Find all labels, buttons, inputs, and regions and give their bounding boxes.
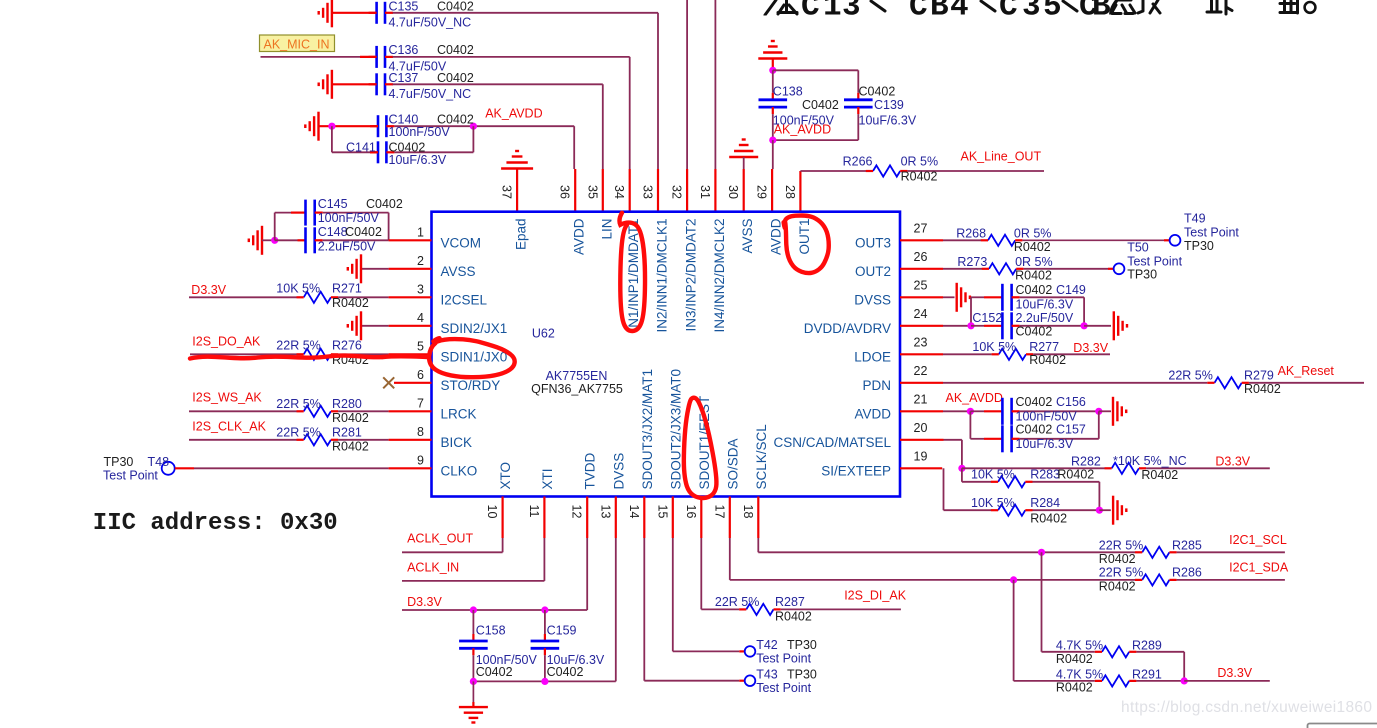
svg-text:TVDD: TVDD bbox=[583, 453, 598, 490]
svg-text:100nF/50V: 100nF/50V bbox=[1016, 410, 1078, 424]
svg-text:37: 37 bbox=[500, 185, 514, 199]
svg-text:Test Point: Test Point bbox=[756, 652, 811, 666]
svg-text:22R 5%: 22R 5% bbox=[276, 397, 320, 411]
svg-text:C135: C135 bbox=[389, 0, 419, 14]
svg-text:C152: C152 bbox=[972, 311, 1002, 325]
svg-text:CSN/CAD/MATSEL: CSN/CAD/MATSEL bbox=[773, 435, 891, 450]
svg-text:R0402: R0402 bbox=[1099, 579, 1136, 593]
svg-text:AK_AVDD: AK_AVDD bbox=[946, 391, 1003, 405]
svg-text:DVSS: DVSS bbox=[611, 453, 626, 490]
svg-text:C0402: C0402 bbox=[1016, 395, 1053, 409]
svg-text:https://blog.csdn.net/xuweiwei: https://blog.csdn.net/xuweiwei1860 bbox=[1121, 699, 1372, 716]
svg-text:2: 2 bbox=[417, 254, 424, 268]
svg-text:22R 5%: 22R 5% bbox=[1099, 538, 1143, 552]
svg-text:DVSS: DVSS bbox=[854, 292, 891, 307]
svg-text:STO/RDY: STO/RDY bbox=[441, 378, 501, 393]
svg-text:R271: R271 bbox=[332, 282, 362, 296]
svg-text:AVDD: AVDD bbox=[854, 406, 891, 421]
svg-text:R0402: R0402 bbox=[775, 610, 812, 624]
svg-text:XTI: XTI bbox=[540, 468, 555, 489]
svg-text:I2S_CLK_AK: I2S_CLK_AK bbox=[192, 420, 266, 434]
svg-text:R0402: R0402 bbox=[1141, 468, 1178, 482]
svg-text:C158: C158 bbox=[476, 624, 506, 638]
svg-text:XTO: XTO bbox=[498, 462, 513, 490]
svg-text:C0402: C0402 bbox=[1016, 324, 1053, 338]
svg-text:5: 5 bbox=[417, 340, 424, 354]
svg-text:R0402: R0402 bbox=[901, 170, 938, 184]
svg-text:AK7755EN: AK7755EN bbox=[546, 369, 608, 383]
svg-text:R287: R287 bbox=[775, 595, 805, 609]
svg-text:19: 19 bbox=[914, 449, 928, 463]
svg-text:C0402: C0402 bbox=[345, 225, 382, 239]
svg-text:AVSS: AVSS bbox=[740, 219, 755, 254]
svg-text:100nF/50V: 100nF/50V bbox=[389, 125, 451, 139]
svg-text:C149: C149 bbox=[1056, 283, 1086, 297]
svg-text:Test Point: Test Point bbox=[1127, 254, 1182, 268]
svg-text:10K 5%: 10K 5% bbox=[276, 282, 320, 296]
svg-text:12: 12 bbox=[570, 505, 584, 519]
svg-text:10K 5%: 10K 5% bbox=[972, 340, 1016, 354]
svg-text:C0402: C0402 bbox=[366, 197, 403, 211]
svg-text:R0402: R0402 bbox=[1244, 382, 1281, 396]
svg-text:24: 24 bbox=[914, 307, 928, 321]
svg-text:TP30: TP30 bbox=[1127, 268, 1157, 282]
svg-text:4.7uF/50V_NC: 4.7uF/50V_NC bbox=[389, 87, 472, 101]
svg-text:D3.3V: D3.3V bbox=[1073, 341, 1108, 355]
svg-text:SI/EXTEEP: SI/EXTEEP bbox=[821, 463, 891, 478]
svg-text:IIC address: 0x30: IIC address: 0x30 bbox=[93, 510, 338, 537]
svg-text:31: 31 bbox=[698, 185, 712, 199]
svg-text:IN3/INP2/DMDAT2: IN3/INP2/DMDAT2 bbox=[684, 219, 699, 332]
svg-text:22R 5%: 22R 5% bbox=[276, 425, 320, 439]
svg-text:R284: R284 bbox=[1030, 496, 1060, 510]
svg-text:R0402: R0402 bbox=[1099, 552, 1136, 566]
svg-text:2.2uF/50V: 2.2uF/50V bbox=[1016, 311, 1074, 325]
svg-text:26: 26 bbox=[914, 250, 928, 264]
svg-text:PDN: PDN bbox=[862, 378, 891, 393]
svg-text:Test Point: Test Point bbox=[1184, 226, 1239, 240]
svg-text:TP30: TP30 bbox=[787, 668, 817, 682]
svg-text:16: 16 bbox=[684, 505, 698, 519]
svg-text:18: 18 bbox=[741, 505, 755, 519]
svg-text:C139: C139 bbox=[874, 98, 904, 112]
svg-text:I2S_DO_AK: I2S_DO_AK bbox=[192, 335, 261, 349]
svg-text:SO/SDA: SO/SDA bbox=[725, 438, 740, 489]
svg-text:T48: T48 bbox=[148, 455, 170, 469]
svg-text:C0402: C0402 bbox=[1016, 423, 1053, 437]
svg-text:32: 32 bbox=[670, 185, 684, 199]
svg-text:D3.3V: D3.3V bbox=[1217, 666, 1252, 680]
svg-text:20: 20 bbox=[914, 421, 928, 435]
svg-text:I2C1_SCL: I2C1_SCL bbox=[1229, 533, 1287, 547]
svg-text:TP30: TP30 bbox=[104, 455, 134, 469]
svg-text:SDIN1/JX0: SDIN1/JX0 bbox=[441, 349, 508, 364]
svg-text:10uF/6.3V: 10uF/6.3V bbox=[1016, 298, 1074, 312]
svg-text:21: 21 bbox=[914, 392, 928, 406]
svg-text:D3.3V: D3.3V bbox=[1215, 455, 1250, 469]
svg-text:22R 5%: 22R 5% bbox=[276, 339, 320, 353]
svg-text:R285: R285 bbox=[1172, 538, 1202, 552]
svg-text:C136: C136 bbox=[389, 43, 419, 57]
svg-text:30: 30 bbox=[726, 185, 740, 199]
svg-text:T43: T43 bbox=[756, 668, 778, 682]
svg-text:C0402: C0402 bbox=[437, 71, 474, 85]
svg-text:4.7K 5%: 4.7K 5% bbox=[1056, 667, 1103, 681]
svg-text:C0402: C0402 bbox=[547, 665, 584, 679]
svg-text:3: 3 bbox=[417, 283, 424, 297]
svg-text:17: 17 bbox=[712, 505, 726, 519]
svg-text:ACLK_IN: ACLK_IN bbox=[407, 560, 459, 574]
svg-text:R0402: R0402 bbox=[1056, 681, 1093, 695]
svg-text:LRCK: LRCK bbox=[441, 406, 477, 421]
svg-text:QFN36_AK7755: QFN36_AK7755 bbox=[531, 382, 623, 396]
svg-text:AK_AVDD: AK_AVDD bbox=[485, 107, 542, 121]
svg-text:4: 4 bbox=[417, 311, 424, 325]
svg-text:I2S_WS_AK: I2S_WS_AK bbox=[192, 391, 262, 405]
svg-text:ACLK_OUT: ACLK_OUT bbox=[407, 532, 473, 546]
svg-text:R0402: R0402 bbox=[1030, 512, 1067, 526]
svg-text:C0402: C0402 bbox=[437, 43, 474, 57]
svg-text:14: 14 bbox=[627, 505, 641, 519]
svg-text:I2CSEL: I2CSEL bbox=[441, 292, 488, 307]
svg-text:0R 5%: 0R 5% bbox=[1014, 227, 1052, 241]
svg-text:C138: C138 bbox=[773, 85, 803, 99]
svg-text:DVDD/AVDRV: DVDD/AVDRV bbox=[804, 321, 891, 336]
svg-text:R279: R279 bbox=[1244, 368, 1274, 382]
svg-text:C0402: C0402 bbox=[1016, 283, 1053, 297]
svg-text:I2S_DI_AK: I2S_DI_AK bbox=[844, 589, 907, 603]
svg-text:34: 34 bbox=[612, 185, 626, 199]
svg-text:13: 13 bbox=[598, 505, 612, 519]
svg-text:R268: R268 bbox=[956, 227, 986, 241]
svg-text:T49: T49 bbox=[1184, 212, 1206, 226]
svg-text:36: 36 bbox=[558, 185, 572, 199]
svg-text:R0402: R0402 bbox=[1056, 652, 1093, 666]
svg-text:AVDD: AVDD bbox=[572, 218, 587, 255]
svg-text:IN2/INN1/DMCLK1: IN2/INN1/DMCLK1 bbox=[655, 219, 670, 333]
svg-text:SCLK/SCL: SCLK/SCL bbox=[754, 424, 769, 490]
svg-text:4.7K 5%: 4.7K 5% bbox=[1056, 638, 1103, 652]
svg-text:28: 28 bbox=[783, 185, 797, 199]
svg-text:10uF/6.3V: 10uF/6.3V bbox=[859, 114, 917, 128]
svg-text:C0402: C0402 bbox=[437, 0, 474, 14]
svg-text:C156: C156 bbox=[1056, 395, 1086, 409]
svg-text:9: 9 bbox=[417, 454, 424, 468]
svg-text:10: 10 bbox=[485, 505, 499, 519]
svg-text:Epad: Epad bbox=[514, 219, 529, 251]
svg-text:C157: C157 bbox=[1056, 423, 1086, 437]
svg-text:D3.3V: D3.3V bbox=[407, 595, 442, 609]
svg-text:*10K 5%_NC: *10K 5%_NC bbox=[1113, 454, 1187, 468]
svg-text:25: 25 bbox=[914, 278, 928, 292]
svg-text:C137: C137 bbox=[389, 71, 419, 85]
svg-text:27: 27 bbox=[914, 221, 928, 235]
svg-text:R286: R286 bbox=[1172, 566, 1202, 580]
svg-text:0R 5%: 0R 5% bbox=[1015, 255, 1053, 269]
svg-text:LDOE: LDOE bbox=[854, 349, 891, 364]
svg-text:LIN: LIN bbox=[599, 219, 614, 240]
svg-text:R281: R281 bbox=[332, 425, 362, 439]
svg-text:10uF/6.3V: 10uF/6.3V bbox=[1016, 437, 1074, 451]
svg-text:R0402: R0402 bbox=[332, 296, 369, 310]
svg-text:SDOUT3/JX2/MAT1: SDOUT3/JX2/MAT1 bbox=[640, 369, 655, 490]
svg-text:R0402: R0402 bbox=[1015, 269, 1052, 283]
svg-text:2.2uF/50V: 2.2uF/50V bbox=[318, 240, 376, 254]
svg-text:R283: R283 bbox=[1030, 467, 1060, 481]
svg-text:10K 5%: 10K 5% bbox=[971, 496, 1015, 510]
svg-text:C148: C148 bbox=[318, 225, 348, 239]
svg-text:C145: C145 bbox=[318, 197, 348, 211]
svg-text:I2C1_SDA: I2C1_SDA bbox=[1229, 561, 1289, 575]
svg-text:R276: R276 bbox=[332, 339, 362, 353]
svg-text:11: 11 bbox=[527, 505, 541, 518]
svg-text:R0402: R0402 bbox=[1029, 353, 1066, 367]
svg-text:22R 5%: 22R 5% bbox=[1099, 566, 1143, 580]
svg-text:T50: T50 bbox=[1127, 241, 1149, 255]
svg-text:R291: R291 bbox=[1132, 667, 1162, 681]
svg-text:D3.3V: D3.3V bbox=[191, 283, 226, 297]
svg-text:100nF/50V: 100nF/50V bbox=[318, 211, 380, 225]
svg-text:33: 33 bbox=[641, 185, 655, 199]
svg-text:23: 23 bbox=[914, 335, 928, 349]
svg-text:22R 5%: 22R 5% bbox=[1168, 368, 1212, 382]
svg-text:CLKO: CLKO bbox=[441, 463, 478, 478]
svg-text:R266: R266 bbox=[843, 155, 873, 169]
svg-text:Test Point: Test Point bbox=[756, 681, 811, 695]
svg-text:C159: C159 bbox=[547, 624, 577, 638]
svg-text:U62: U62 bbox=[532, 327, 555, 341]
svg-text:10uF/6.3V: 10uF/6.3V bbox=[389, 153, 447, 167]
svg-text:AVDD: AVDD bbox=[769, 218, 784, 255]
svg-text:AK_Reset: AK_Reset bbox=[1278, 364, 1335, 378]
svg-text:OUT3: OUT3 bbox=[855, 235, 891, 250]
svg-text:7: 7 bbox=[417, 397, 424, 411]
svg-text:22: 22 bbox=[914, 364, 928, 378]
svg-text:R280: R280 bbox=[332, 397, 362, 411]
svg-text:0R 5%: 0R 5% bbox=[901, 155, 939, 169]
svg-text:TP30: TP30 bbox=[1184, 239, 1214, 253]
svg-text:4.7uF/50V_NC: 4.7uF/50V_NC bbox=[389, 16, 472, 30]
svg-text:R289: R289 bbox=[1132, 638, 1162, 652]
svg-text:R0402: R0402 bbox=[1014, 240, 1051, 254]
svg-text:OUT1: OUT1 bbox=[797, 219, 812, 255]
svg-text:AK_MIC_IN: AK_MIC_IN bbox=[264, 38, 330, 52]
svg-text:IN4/INN2/DMCLK2: IN4/INN2/DMCLK2 bbox=[712, 219, 727, 333]
svg-text:R0402: R0402 bbox=[332, 411, 369, 425]
svg-text:R0402: R0402 bbox=[332, 440, 369, 454]
svg-text:AK_Line_OUT: AK_Line_OUT bbox=[961, 150, 1042, 164]
svg-text:BICK: BICK bbox=[441, 435, 473, 450]
svg-text:C141: C141 bbox=[346, 141, 376, 155]
svg-text:T42: T42 bbox=[756, 638, 778, 652]
svg-text:R0402: R0402 bbox=[1057, 467, 1094, 481]
svg-text:C0402: C0402 bbox=[802, 98, 839, 112]
svg-text:29: 29 bbox=[755, 185, 769, 199]
svg-text:22R 5%: 22R 5% bbox=[715, 595, 759, 609]
svg-text:10K 5%: 10K 5% bbox=[971, 467, 1015, 481]
svg-text:Test Point: Test Point bbox=[103, 469, 158, 483]
svg-text:SDOUT2/JX3/MAT0: SDOUT2/JX3/MAT0 bbox=[668, 369, 683, 490]
svg-text:C0402: C0402 bbox=[476, 665, 513, 679]
svg-text:8: 8 bbox=[417, 425, 424, 439]
svg-text:35: 35 bbox=[585, 185, 599, 199]
svg-text:TP30: TP30 bbox=[787, 638, 817, 652]
svg-text:OUT2: OUT2 bbox=[855, 264, 891, 279]
svg-text:AK_AVDD: AK_AVDD bbox=[774, 122, 831, 136]
svg-text:15: 15 bbox=[655, 505, 669, 519]
svg-text:C0402: C0402 bbox=[859, 85, 896, 99]
svg-text:VCOM: VCOM bbox=[441, 235, 482, 250]
svg-text:6: 6 bbox=[417, 368, 424, 382]
svg-text:1: 1 bbox=[417, 226, 424, 240]
svg-text:AVSS: AVSS bbox=[441, 264, 476, 279]
svg-text:SDIN2/JX1: SDIN2/JX1 bbox=[441, 321, 508, 336]
svg-text:R273: R273 bbox=[957, 255, 987, 269]
